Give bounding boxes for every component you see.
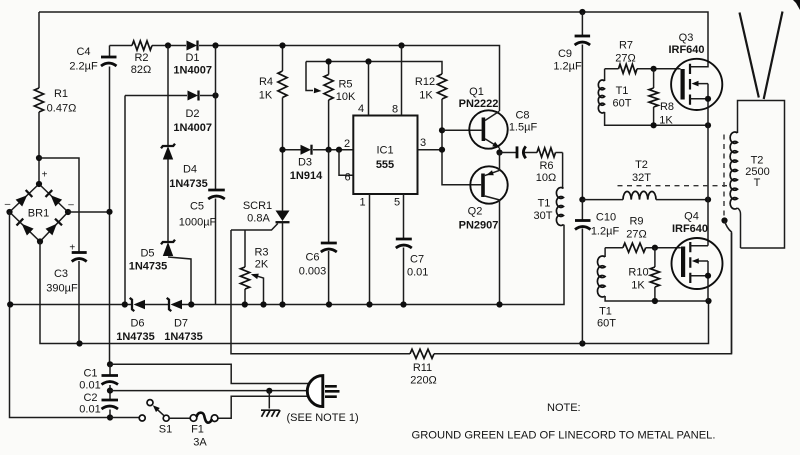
inductor T1 60T upper — [604, 69, 606, 81]
svg-text:390µF: 390µF — [46, 283, 78, 295]
svg-text:Q4: Q4 — [684, 211, 699, 223]
svg-text:C9: C9 — [558, 48, 572, 60]
AC plug — [307, 376, 322, 407]
capacitor C6 — [328, 150, 330, 305]
wire R1 top lead — [38, 12, 40, 88]
node R2/D1/D4 — [165, 42, 171, 48]
Q3 source to Q4 drain wire — [707, 125, 709, 245]
resistor R4 1K — [282, 46, 284, 151]
svg-text:1.2µF: 1.2µF — [591, 226, 620, 238]
capacitor C10 1.2uF — [579, 197, 585, 203]
gate drive lower: R9 / T1 60T / R10 — [605, 247, 681, 249]
svg-text:220Ω: 220Ω — [410, 375, 437, 387]
svg-text:D2: D2 — [185, 108, 199, 120]
DC minus rail — [40, 242, 709, 344]
svg-text:BR1: BR1 — [28, 208, 49, 220]
svg-text:1.5µF: 1.5µF — [509, 122, 538, 134]
wire to C3 top — [39, 158, 79, 253]
wire D1/D2 cathodes to C5 — [215, 46, 217, 305]
svg-text:R5: R5 — [338, 79, 352, 91]
svg-text:R10: R10 — [628, 267, 648, 279]
svg-text:0.003: 0.003 — [299, 266, 327, 278]
svg-text:T1: T1 — [616, 85, 629, 97]
svg-text:PN2907: PN2907 — [459, 220, 499, 232]
svg-text:IRF640: IRF640 — [672, 223, 708, 235]
svg-text:1N4735: 1N4735 — [169, 178, 208, 190]
svg-text:1N4007: 1N4007 — [173, 122, 212, 134]
R11 rail — [231, 230, 732, 354]
zener D6 1N4735 — [134, 300, 146, 310]
svg-text:F1: F1 — [191, 424, 204, 436]
svg-text:R12: R12 — [415, 76, 435, 88]
svg-text:D1: D1 — [185, 52, 199, 64]
svg-text:0.01: 0.01 — [79, 404, 100, 416]
svg-text:C6: C6 — [305, 252, 319, 264]
diode D2 1N4007 — [188, 91, 199, 101]
svg-text:D7: D7 — [174, 318, 188, 330]
svg-text:82Ω: 82Ω — [131, 64, 151, 76]
resistor R11 — [410, 349, 434, 358]
svg-text:Q2: Q2 — [468, 206, 483, 218]
pin 1 — [369, 194, 371, 305]
inductor T1 60T lower — [604, 248, 606, 257]
svg-text:1N914: 1N914 — [290, 170, 323, 182]
svg-text:R11: R11 — [413, 362, 432, 374]
svg-text:0.47Ω: 0.47Ω — [47, 103, 77, 115]
svg-text:R7: R7 — [619, 40, 633, 52]
svg-text:–: – — [68, 200, 74, 211]
antenna — [740, 12, 783, 100]
zener bus — [10, 225, 564, 305]
chassis ground symbol — [261, 409, 280, 411]
svg-text:0.8A: 0.8A — [247, 213, 270, 225]
svg-text:IRF640: IRF640 — [668, 44, 704, 56]
diode D3 1N914 — [283, 149, 354, 151]
svg-text:SCR1: SCR1 — [243, 200, 272, 212]
svg-text:5: 5 — [394, 197, 400, 209]
resistor R1 — [34, 88, 43, 112]
SCR1 — [282, 150, 284, 211]
zener D4 1N4735 — [163, 146, 173, 160]
earth ground tap — [268, 391, 270, 409]
BR1 diode upper-left — [16, 195, 28, 206]
svg-text:C3: C3 — [54, 268, 68, 280]
T2 32T primary winding — [582, 199, 623, 201]
wire BR1 right vertex to C4 line — [68, 211, 110, 213]
svg-text:8: 8 — [392, 104, 398, 116]
svg-text:D6: D6 — [130, 318, 144, 330]
svg-text:R4: R4 — [259, 76, 273, 88]
line filter C1 — [107, 361, 113, 367]
svg-text:PN2222: PN2222 — [459, 98, 499, 110]
pin 5 / C7 — [403, 194, 405, 305]
svg-text:D3: D3 — [298, 157, 312, 169]
svg-text:3A: 3A — [193, 437, 207, 449]
rail C (pins 4/8 supply) — [306, 62, 442, 75]
scan artifact top-right corner — [793, 0, 800, 10]
zener D5 1N4735 — [163, 242, 173, 256]
zener D7 1N4735 — [171, 300, 183, 310]
capacitor C7 — [396, 238, 412, 241]
svg-text:1N4735: 1N4735 — [116, 331, 155, 343]
svg-text:R9: R9 — [629, 216, 643, 228]
svg-text:S1: S1 — [159, 424, 172, 436]
capacitor C9 1.2uF — [579, 9, 585, 15]
transistor Q2 PN2907 — [470, 166, 507, 203]
node junction R1/BR1/C3 — [36, 155, 42, 161]
svg-text:C7: C7 — [410, 254, 424, 266]
wire x125 down to zener bus — [124, 96, 126, 305]
svg-text:R8: R8 — [660, 101, 674, 113]
resistor R8 1K — [653, 69, 655, 88]
MOSFET Q4 IRF640 — [672, 238, 723, 289]
svg-text:0.01: 0.01 — [79, 380, 100, 392]
svg-text:30T: 30T — [534, 210, 553, 222]
svg-text:1N4007: 1N4007 — [173, 65, 212, 77]
svg-text:Q1: Q1 — [469, 86, 484, 98]
linecord wires — [110, 364, 310, 383]
resistor R6 10ohm — [537, 148, 556, 157]
pin 3 — [418, 149, 443, 151]
capacitor C5 — [208, 189, 225, 192]
svg-text:10Ω: 10Ω — [536, 172, 556, 184]
svg-text:D5: D5 — [140, 248, 154, 260]
svg-text:60T: 60T — [613, 98, 632, 110]
potentiometer R3 2K — [244, 230, 246, 305]
pin 2/6 tie — [339, 150, 353, 176]
wire D2 line — [125, 95, 216, 97]
MOSFET Q3 IRF640 — [671, 59, 722, 110]
capacitor C4 — [109, 46, 111, 365]
node D1 cathode — [212, 42, 218, 48]
svg-text:T2: T2 — [751, 155, 764, 167]
svg-text:1000µF: 1000µF — [179, 217, 217, 229]
svg-text:1K: 1K — [631, 280, 645, 292]
resistor R2 — [132, 41, 152, 50]
svg-text:Q3: Q3 — [679, 32, 694, 44]
svg-text:1.2µF: 1.2µF — [553, 61, 582, 73]
svg-text:C8: C8 — [515, 110, 529, 122]
svg-text:R1: R1 — [54, 88, 68, 100]
svg-text:–: – — [5, 199, 11, 210]
top rail V+ — [39, 12, 708, 67]
svg-text:27Ω: 27Ω — [615, 53, 635, 65]
svg-text:D4: D4 — [183, 164, 197, 176]
IC1 555 box — [353, 116, 417, 195]
svg-text:R2: R2 — [134, 52, 148, 64]
svg-text:C10: C10 — [596, 212, 616, 224]
BR1 diode upper-right — [51, 195, 63, 206]
svg-text:1N4735: 1N4735 — [164, 331, 203, 343]
svg-text:T1: T1 — [599, 306, 612, 318]
gate drive upper: R7 / T1 60T / R8 — [605, 68, 681, 70]
svg-text:C1: C1 — [83, 368, 97, 380]
svg-text:2: 2 — [344, 138, 350, 150]
svg-text:555: 555 — [376, 159, 394, 171]
svg-text:27Ω: 27Ω — [626, 229, 646, 241]
capacitor C8 1.5uF — [500, 152, 517, 154]
svg-text:C2: C2 — [83, 392, 97, 404]
rail B (rectified) — [110, 46, 500, 112]
svg-text:+: + — [69, 243, 75, 254]
svg-text:(SEE NOTE 1): (SEE NOTE 1) — [287, 412, 359, 424]
svg-text:T: T — [754, 177, 761, 189]
transformer core dashed line horizontal — [618, 185, 730, 187]
svg-text:6: 6 — [344, 172, 350, 184]
svg-text:32T: 32T — [632, 172, 651, 184]
svg-text:0.01: 0.01 — [407, 267, 428, 279]
svg-text:10K: 10K — [336, 91, 356, 103]
wire zener string D4/D5 — [168, 46, 191, 305]
node D2 cathode — [212, 92, 218, 98]
svg-text:4: 4 — [358, 103, 364, 115]
switch S1 — [110, 417, 139, 419]
transistor Q1 PN2222 — [469, 110, 507, 148]
svg-text:2K: 2K — [255, 259, 269, 271]
svg-text:NOTE:: NOTE: — [547, 402, 581, 414]
BR1 diode lower-left — [22, 224, 34, 236]
svg-text:1: 1 — [359, 197, 365, 209]
svg-text:T1: T1 — [538, 198, 551, 210]
BR1 diode lower-right — [46, 224, 57, 236]
fuse F1 3A — [169, 417, 190, 419]
svg-text:1K: 1K — [659, 115, 673, 127]
bridge rectifier BR1 — [10, 184, 69, 242]
svg-text:+: + — [42, 170, 48, 181]
resistor R10 1K — [654, 248, 656, 267]
capacitor C3 — [72, 251, 87, 254]
svg-text:T2: T2 — [635, 159, 648, 171]
left AC rail — [10, 212, 111, 418]
transformer core dashed line — [723, 135, 725, 218]
svg-text:1K: 1K — [259, 90, 273, 102]
potentiometer R5 10K — [306, 62, 313, 91]
inductor T1 30T primary — [562, 153, 564, 189]
svg-text:1K: 1K — [419, 90, 433, 102]
svg-text:IC1: IC1 — [376, 145, 393, 157]
line filter C2 — [107, 388, 113, 394]
pin 8 — [401, 46, 403, 116]
svg-text:R6: R6 — [539, 160, 553, 172]
svg-text:1N4735: 1N4735 — [129, 261, 168, 273]
node pin3 to bases — [439, 127, 445, 133]
svg-text:60T: 60T — [597, 318, 616, 330]
diode D1 1N4007 — [187, 41, 198, 51]
svg-text:C4: C4 — [76, 46, 90, 58]
svg-text:3: 3 — [420, 137, 426, 149]
T2 secondary coil form box — [738, 101, 785, 249]
resistor R12 1K — [437, 74, 446, 99]
svg-text:GROUND GREEN LEAD OF LINECORD: GROUND GREEN LEAD OF LINECORD TO METAL P… — [412, 430, 716, 442]
wire R1 bottom to BR1 + — [38, 112, 40, 184]
pin 4 — [368, 62, 370, 116]
svg-text:C5: C5 — [190, 201, 204, 213]
svg-text:R3: R3 — [254, 247, 268, 259]
svg-text:2.2µF: 2.2µF — [69, 61, 98, 73]
